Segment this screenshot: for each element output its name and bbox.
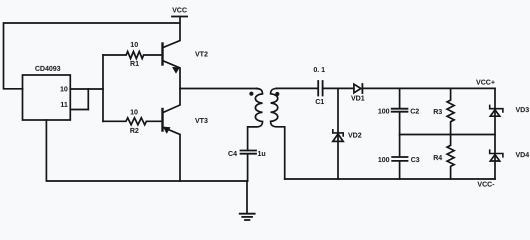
- svg-text:VD4: VD4: [515, 151, 529, 159]
- capacitor C2: [392, 109, 408, 112]
- svg-text:0. 1: 0. 1: [313, 66, 325, 74]
- wire: branch vertical to R1/R2: [102, 55, 104, 121]
- svg-text:VCC-: VCC-: [477, 181, 495, 189]
- wire: top feedback rail and left vertical into CD4093 input: [4, 23, 180, 89]
- svg-text:R2: R2: [130, 127, 139, 135]
- svg-text:VT2: VT2: [195, 50, 208, 58]
- svg-text:10: 10: [130, 41, 138, 49]
- capacitor C4: [241, 151, 257, 182]
- wire: pin 11 lead: [70, 109, 88, 111]
- svg-text:CD4093: CD4093: [35, 65, 61, 73]
- svg-text:C2: C2: [410, 107, 419, 115]
- wire: C2/C3 stack vertical: [399, 88, 401, 179]
- transistor VT3: [163, 89, 181, 182]
- ground: [240, 181, 255, 220]
- transistor VT2: [163, 17, 181, 89]
- wire: bottom-right rail: [285, 178, 495, 180]
- svg-text:VCC: VCC: [172, 6, 187, 14]
- resistor R3: [447, 88, 454, 134]
- wire: mid rail: [400, 134, 495, 136]
- wire: C1 to VD1: [323, 87, 354, 89]
- diode VD1: [354, 84, 363, 93]
- wire: pin 10-11 link vertical: [87, 89, 89, 110]
- svg-text:R3: R3: [433, 108, 442, 116]
- capacitor C3: [392, 157, 407, 161]
- transformer primary phase dot: [249, 92, 253, 96]
- svg-text:100: 100: [378, 156, 390, 164]
- svg-text:R4: R4: [433, 154, 442, 162]
- zener diode VD4: [490, 150, 503, 161]
- transformer T1 primary winding: [248, 89, 263, 151]
- wire: VD3/VD4 branch vertical: [494, 88, 496, 179]
- svg-text:11: 11: [60, 101, 68, 109]
- svg-text:R1: R1: [130, 60, 139, 68]
- wire: VD2 branch vertical: [337, 88, 339, 179]
- svg-text:1u: 1u: [257, 150, 265, 158]
- svg-text:100: 100: [378, 107, 390, 115]
- power VCC bar: [172, 16, 187, 18]
- wire: secondary top lead to C1: [277, 87, 318, 89]
- svg-text:C1: C1: [315, 98, 324, 106]
- svg-text:VCC+: VCC+: [476, 79, 495, 87]
- wire: top-right rail VD1 to VCC+ corner: [362, 87, 495, 89]
- svg-text:VD2: VD2: [348, 131, 362, 139]
- svg-text:VT3: VT3: [195, 117, 208, 125]
- svg-text:C3: C3: [411, 156, 420, 164]
- svg-text:10: 10: [60, 85, 68, 93]
- capacitor C1: [318, 81, 322, 96]
- wire: bottom-left rail from CD4093 to ground node: [46, 120, 247, 181]
- zener diode VD3: [490, 105, 503, 116]
- svg-text:C4: C4: [228, 150, 237, 158]
- transformer secondary phase dot: [275, 92, 279, 96]
- resistor R4: [447, 135, 454, 180]
- svg-text:VD3: VD3: [515, 106, 529, 114]
- wire: output node to transformer primary: [180, 88, 257, 90]
- wire: pin 10 lead: [70, 88, 103, 90]
- IC U1 CD4093 box: [23, 75, 71, 120]
- svg-text:VD1: VD1: [351, 94, 365, 102]
- svg-text:10: 10: [130, 109, 138, 117]
- resistor R1: [103, 52, 162, 59]
- zener diode VD2: [333, 130, 343, 142]
- transformer T1 secondary winding: [271, 88, 285, 179]
- resistor R2: [103, 118, 162, 125]
